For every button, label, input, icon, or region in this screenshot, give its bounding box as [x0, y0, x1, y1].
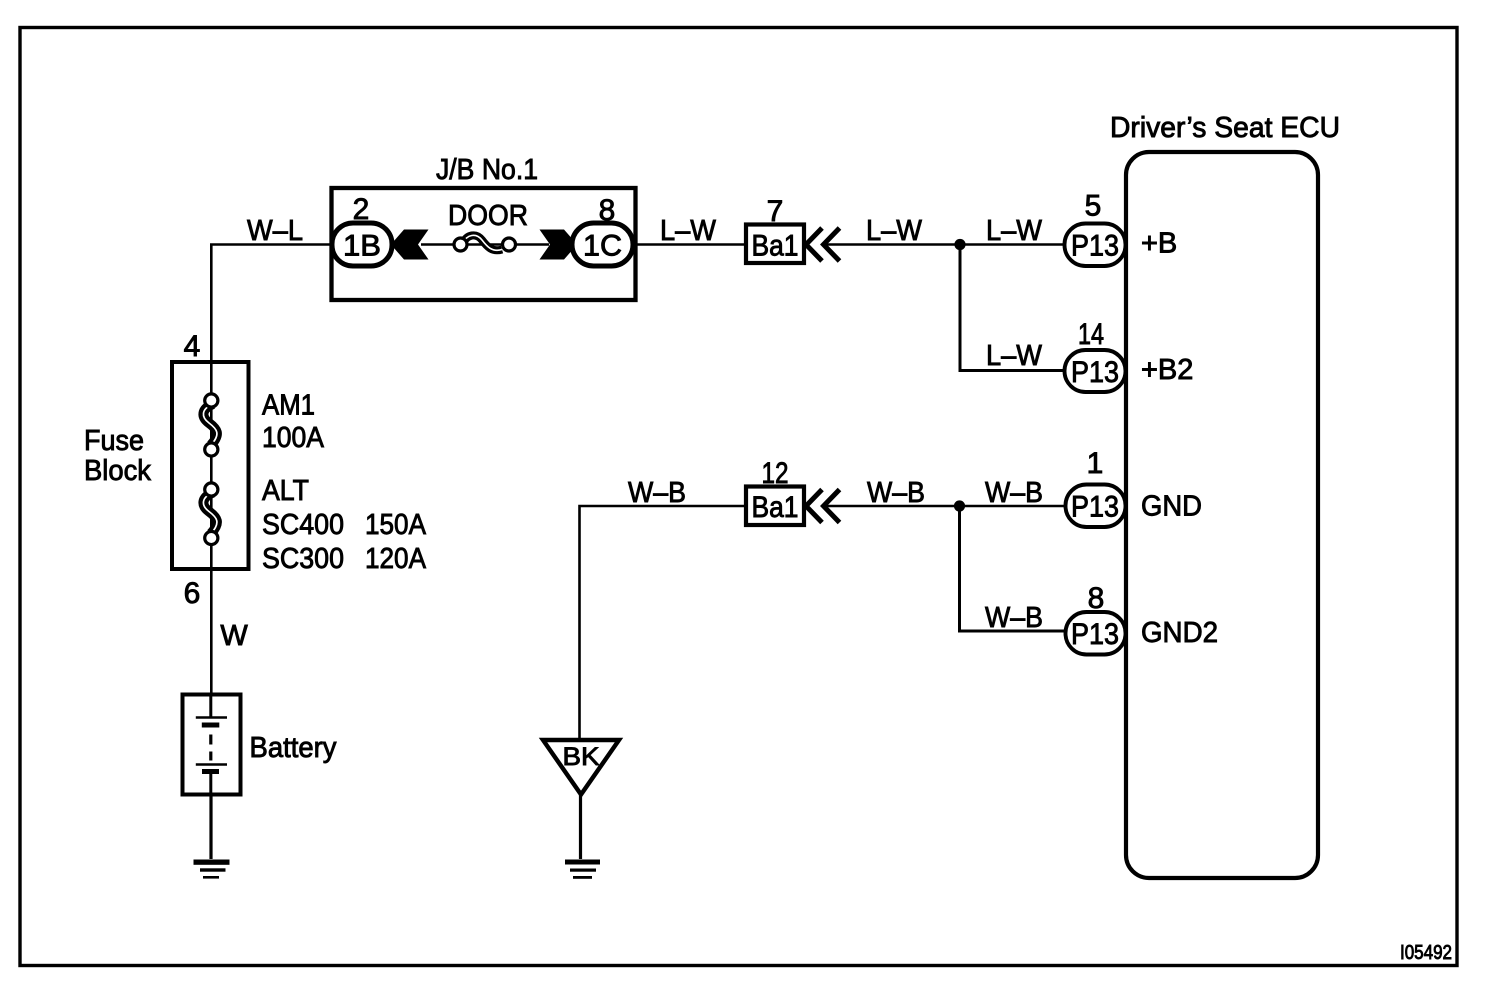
- svg-text:W–B: W–B: [628, 477, 686, 509]
- svg-text:+B2: +B2: [1141, 354, 1193, 386]
- connector P13 pin 14: [1065, 350, 1126, 392]
- svg-text:Battery: Battery: [250, 732, 337, 764]
- svg-text:GND2: GND2: [1141, 617, 1218, 649]
- svg-text:W–L: W–L: [247, 215, 303, 247]
- wire W-B from chevrons to P13 pin 1: [824, 505, 1066, 508]
- svg-text:AM1: AM1: [262, 390, 315, 422]
- svg-text:SC400: SC400: [262, 509, 344, 541]
- svg-text:P13: P13: [1071, 618, 1119, 651]
- wire inside J/B: [421, 243, 549, 245]
- svg-text:6: 6: [184, 577, 201, 610]
- svg-text:+B: +B: [1141, 228, 1177, 260]
- svg-text:ALT: ALT: [262, 475, 309, 507]
- svg-text:120A: 120A: [365, 543, 427, 575]
- svg-text:14: 14: [1078, 318, 1104, 351]
- junction node: [954, 239, 965, 250]
- ground (battery): [194, 860, 230, 879]
- connector 1B: [332, 223, 392, 266]
- svg-text:I05492: I05492: [1400, 942, 1452, 964]
- svg-text:1: 1: [1087, 447, 1104, 480]
- connector P13 pin 8: [1066, 612, 1126, 655]
- fusible link ALT: [203, 483, 217, 545]
- svg-text:W–B: W–B: [867, 477, 925, 509]
- connector P13 pin 1: [1066, 485, 1126, 528]
- svg-text:GND: GND: [1141, 491, 1202, 523]
- svg-text:L–W: L–W: [866, 215, 923, 247]
- svg-text:BK: BK: [563, 743, 600, 771]
- wire from battery to ground: [209, 795, 212, 860]
- wire W-B from BK splice to Ba1 pin 12: [580, 506, 747, 739]
- svg-text:L–W: L–W: [986, 215, 1043, 247]
- junction node: [954, 500, 965, 511]
- svg-text:L–W: L–W: [660, 215, 717, 247]
- arrowhead pointing left at 1B: [394, 230, 429, 260]
- splice BK triangle: [543, 740, 619, 795]
- svg-text:Driver’s Seat ECU: Driver’s Seat ECU: [1110, 112, 1340, 144]
- connector P13 pin 5: [1065, 224, 1126, 267]
- svg-text:J/B No.1: J/B No.1: [436, 154, 538, 186]
- svg-text:1B: 1B: [343, 230, 381, 263]
- chevrons at Ba1 pin 7: [806, 228, 840, 261]
- ground (BK): [565, 860, 600, 879]
- fuse block box: [172, 362, 249, 569]
- svg-text:Ba1: Ba1: [752, 491, 799, 524]
- wire W-L from junction block 1B to fuse block: [211, 245, 333, 364]
- wire L-W from 1C to Ba1: [636, 243, 747, 245]
- svg-text:Ba1: Ba1: [752, 230, 799, 263]
- svg-text:1C: 1C: [583, 230, 622, 263]
- svg-text:P13: P13: [1071, 230, 1119, 263]
- svg-text:5: 5: [1085, 190, 1102, 223]
- fuse DOOR symbol: [454, 235, 516, 251]
- svg-text:W: W: [220, 620, 248, 652]
- svg-text:4: 4: [184, 330, 201, 363]
- connector Ba1 (pin 7): [746, 225, 804, 264]
- fusible link AM1: [203, 394, 217, 456]
- svg-text:P13: P13: [1071, 356, 1119, 389]
- wire L-W from chevrons to P13 pin 5: [824, 243, 1066, 246]
- wire from BK to ground: [579, 795, 582, 860]
- svg-text:SC300: SC300: [262, 543, 344, 575]
- svg-text:W–B: W–B: [985, 602, 1043, 634]
- connector Ba1 (pin 12): [746, 487, 804, 526]
- svg-text:DOOR: DOOR: [448, 200, 528, 232]
- ECU box: [1126, 152, 1318, 878]
- wire L-W from junction to P13 pin 14: [960, 245, 1066, 371]
- battery plates: [196, 695, 227, 795]
- svg-text:L–W: L–W: [986, 340, 1043, 372]
- svg-text:W–B: W–B: [985, 477, 1043, 509]
- svg-text:150A: 150A: [365, 509, 427, 541]
- svg-text:P13: P13: [1071, 491, 1119, 524]
- svg-text:Fuse: Fuse: [84, 425, 144, 457]
- junction block J/B No.1 box: [332, 188, 636, 300]
- wire W-B from junction to P13 pin 8: [960, 506, 1067, 631]
- chevrons at Ba1 pin 12: [806, 490, 840, 523]
- battery box: [183, 695, 241, 795]
- connector 1C: [572, 223, 633, 266]
- svg-text:Block: Block: [84, 455, 151, 487]
- svg-text:100A: 100A: [262, 422, 325, 454]
- arrowhead pointing right at 1C: [540, 230, 575, 260]
- wire through fuse block: [210, 362, 213, 694]
